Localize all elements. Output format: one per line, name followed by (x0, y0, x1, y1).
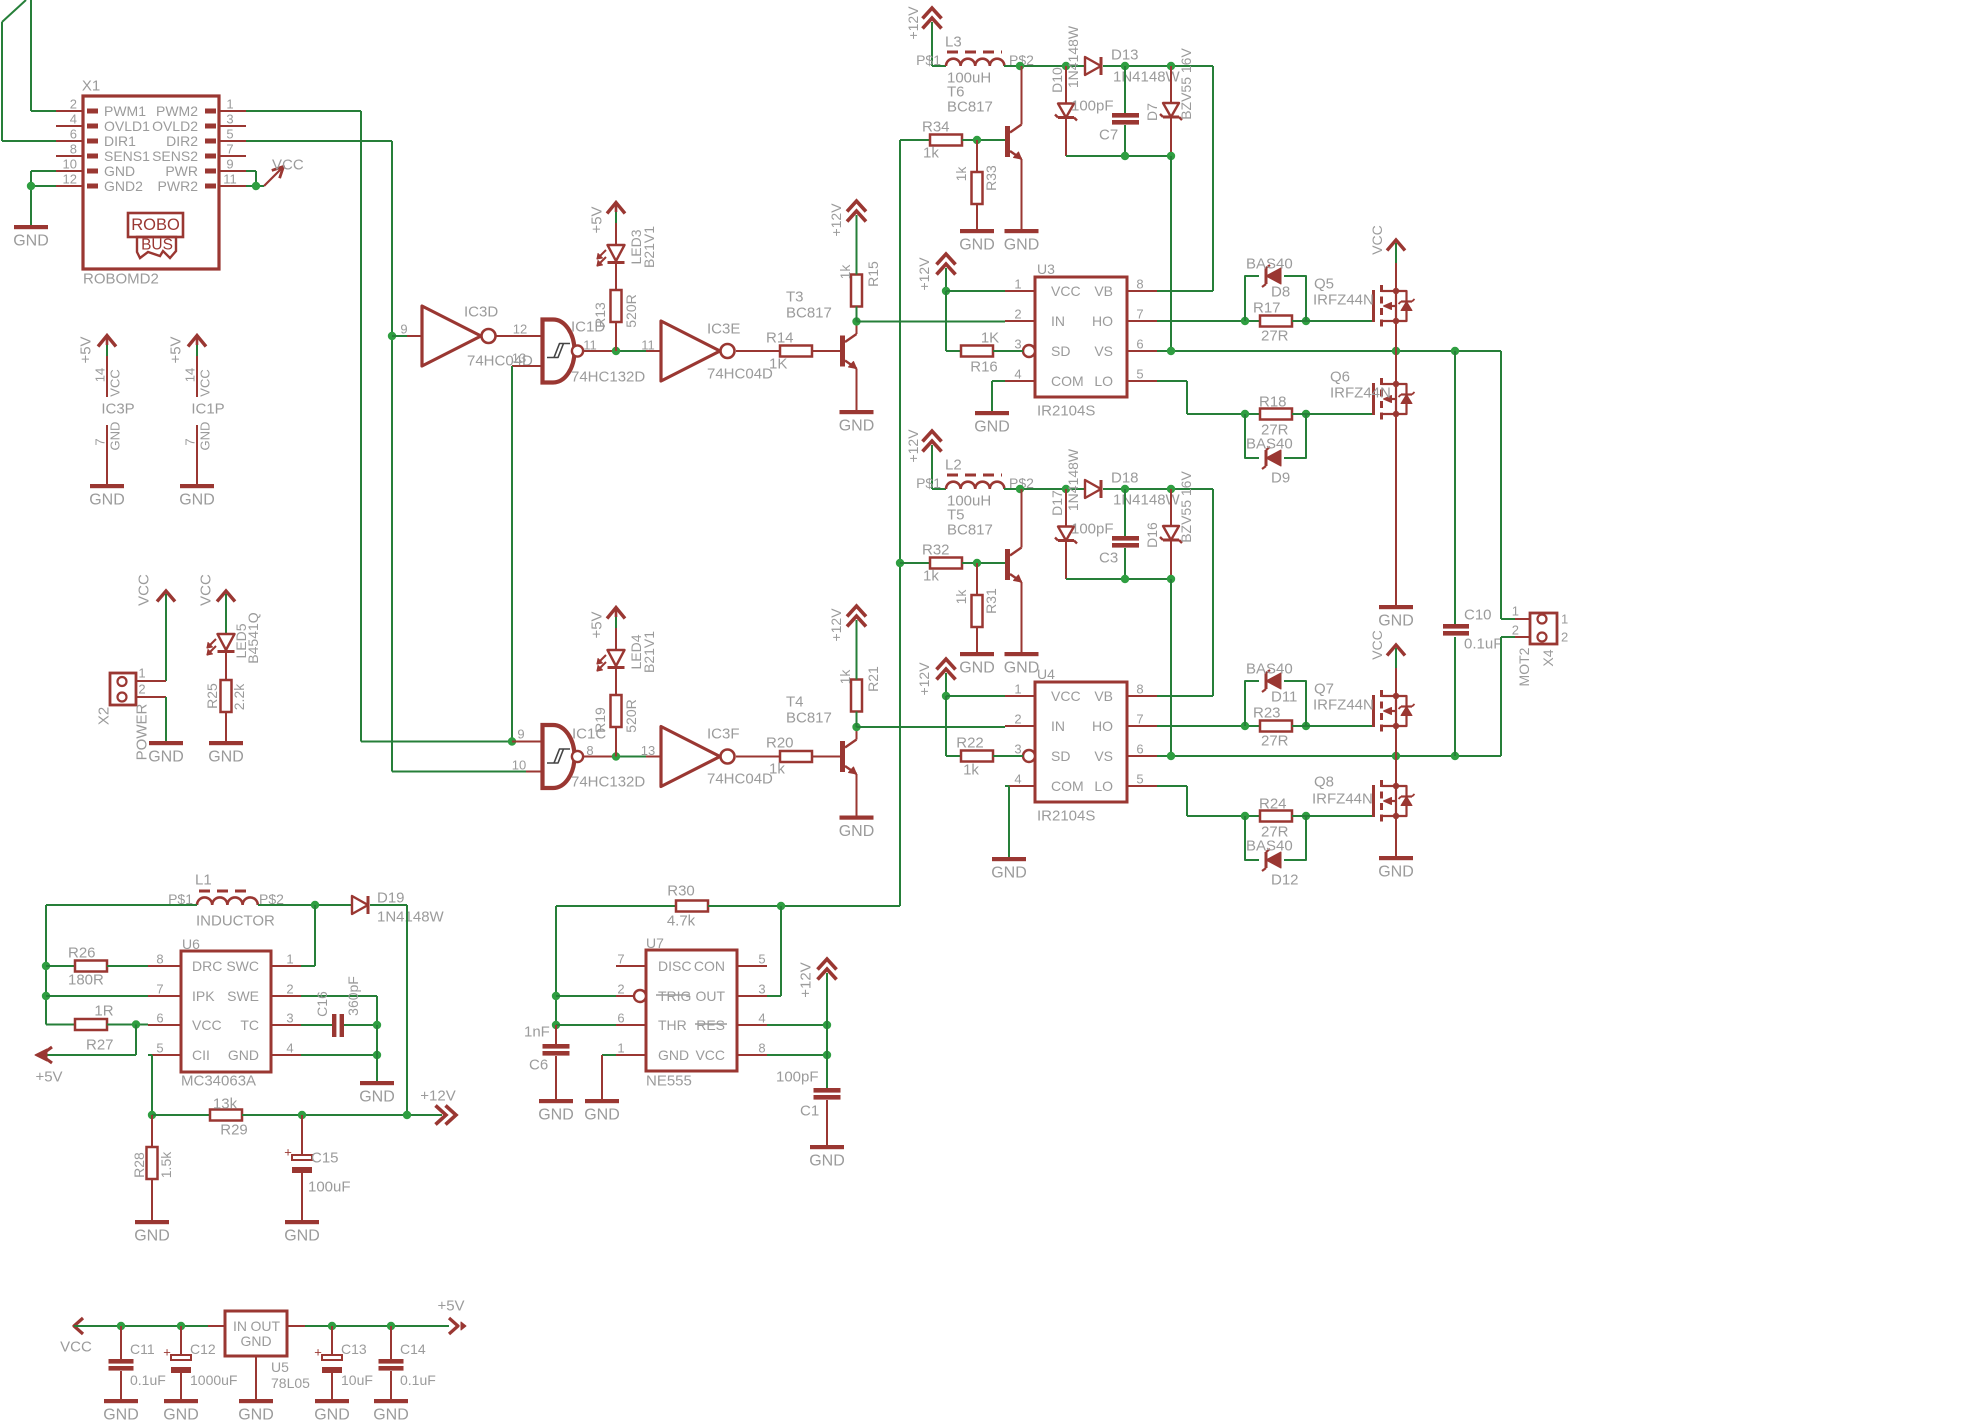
svg-text:GND: GND (104, 163, 135, 179)
svg-text:13: 13 (512, 351, 526, 366)
svg-text:IRFZ44N: IRFZ44N (1330, 385, 1391, 402)
svg-text:2: 2 (1561, 630, 1568, 645)
svg-text:+: + (163, 1345, 171, 1360)
svg-text:27R: 27R (1261, 328, 1289, 345)
svg-text:CON: CON (694, 958, 725, 974)
svg-text:2: 2 (138, 682, 145, 697)
svg-text:IC3F: IC3F (707, 726, 740, 743)
svg-text:1K: 1K (769, 356, 787, 373)
svg-text:R22: R22 (956, 735, 984, 752)
svg-text:5: 5 (156, 1041, 163, 1056)
svg-text:CII: CII (192, 1047, 210, 1063)
svg-text:D19: D19 (377, 890, 405, 907)
svg-text:P$1: P$1 (916, 52, 941, 68)
svg-text:DIR1: DIR1 (104, 133, 136, 149)
svg-text:IC3E: IC3E (707, 321, 740, 338)
svg-text:R29: R29 (220, 1122, 248, 1139)
svg-text:R23: R23 (1253, 705, 1281, 722)
svg-text:R17: R17 (1253, 300, 1281, 317)
svg-text:1k: 1k (923, 568, 939, 585)
svg-text:P$1: P$1 (916, 475, 941, 491)
svg-text:MC34063A: MC34063A (181, 1073, 256, 1090)
svg-text:GND: GND (1378, 613, 1414, 630)
svg-text:SD: SD (1051, 343, 1070, 359)
svg-text:1N4148W: 1N4148W (1065, 25, 1081, 88)
svg-text:0.1uF: 0.1uF (1464, 636, 1502, 653)
svg-text:2: 2 (1014, 307, 1021, 322)
svg-text:C3: C3 (1099, 550, 1118, 567)
svg-text:GND2: GND2 (104, 178, 143, 194)
svg-text:R30: R30 (667, 883, 695, 900)
svg-text:D16: D16 (1144, 522, 1160, 548)
svg-text:VS: VS (1094, 343, 1113, 359)
svg-text:INDUCTOR: INDUCTOR (196, 913, 275, 930)
svg-text:TRIG: TRIG (658, 988, 691, 1004)
svg-text:VCC: VCC (60, 1339, 92, 1356)
svg-text:IRFZ44N: IRFZ44N (1313, 697, 1374, 714)
svg-text:VCC: VCC (1369, 225, 1385, 255)
svg-text:LO: LO (1094, 778, 1113, 794)
svg-text:VCC: VCC (1369, 630, 1385, 660)
svg-text:IC3D: IC3D (464, 304, 498, 321)
svg-text:VCC: VCC (695, 1047, 725, 1063)
svg-text:SENS2: SENS2 (152, 148, 198, 164)
svg-text:SWE: SWE (227, 988, 259, 1004)
svg-text:5: 5 (1136, 367, 1143, 382)
svg-text:Q6: Q6 (1330, 369, 1350, 386)
svg-text:1: 1 (1512, 604, 1519, 619)
svg-text:GND: GND (148, 749, 184, 766)
svg-text:R19: R19 (592, 707, 608, 733)
svg-text:SENS1: SENS1 (104, 148, 150, 164)
svg-text:9: 9 (226, 157, 233, 172)
svg-text:OVLD1: OVLD1 (104, 118, 150, 134)
svg-text:COM: COM (1051, 373, 1084, 389)
svg-text:VB: VB (1094, 688, 1113, 704)
svg-text:IC1P: IC1P (191, 401, 224, 418)
svg-text:R15: R15 (865, 261, 881, 287)
svg-text:C12: C12 (190, 1341, 216, 1357)
svg-text:IPK: IPK (192, 988, 215, 1004)
svg-text:2: 2 (1014, 712, 1021, 727)
svg-text:GND: GND (1378, 864, 1414, 881)
svg-text:Q7: Q7 (1314, 681, 1334, 698)
svg-text:VCC: VCC (272, 157, 304, 174)
svg-text:VCC: VCC (198, 574, 215, 606)
svg-text:520R: 520R (623, 699, 639, 732)
svg-text:GND: GND (208, 749, 244, 766)
svg-text:ROBO: ROBO (131, 216, 180, 234)
svg-text:74HC04D: 74HC04D (707, 366, 773, 383)
svg-text:BUS: BUS (141, 237, 173, 254)
svg-text:78L05: 78L05 (271, 1375, 310, 1391)
svg-text:100pF: 100pF (776, 1069, 819, 1086)
svg-text:2.2k: 2.2k (231, 683, 247, 710)
svg-text:7: 7 (156, 982, 163, 997)
svg-text:B21V1: B21V1 (641, 631, 657, 673)
svg-text:+5V: +5V (589, 206, 606, 233)
svg-text:D12: D12 (1271, 872, 1299, 889)
svg-text:D8: D8 (1271, 284, 1290, 301)
svg-text:1k: 1k (963, 762, 979, 779)
svg-text:C11: C11 (130, 1341, 155, 1357)
svg-text:TC: TC (240, 1017, 259, 1033)
svg-text:GND: GND (1004, 237, 1040, 254)
svg-text:1k: 1k (769, 761, 785, 778)
svg-text:100pF: 100pF (1071, 521, 1114, 538)
svg-text:2: 2 (1512, 623, 1519, 638)
svg-text:X2: X2 (96, 707, 113, 725)
svg-text:IR2104S: IR2104S (1037, 403, 1095, 420)
svg-text:5: 5 (1136, 772, 1143, 787)
svg-text:8: 8 (1136, 682, 1143, 697)
svg-text:L2: L2 (945, 457, 962, 474)
svg-text:GND: GND (228, 1047, 259, 1063)
svg-text:X4: X4 (1540, 649, 1556, 666)
svg-text:R31: R31 (983, 588, 999, 614)
svg-text:GND: GND (974, 419, 1010, 436)
svg-text:1R: 1R (94, 1003, 113, 1020)
svg-text:VCC: VCC (198, 369, 213, 396)
svg-text:PWM1: PWM1 (104, 103, 146, 119)
svg-text:100pF: 100pF (1071, 98, 1114, 115)
svg-text:BAS40: BAS40 (1246, 436, 1293, 453)
svg-text:R32: R32 (922, 542, 950, 559)
svg-text:GND: GND (839, 823, 875, 840)
svg-text:VCC: VCC (1051, 688, 1081, 704)
svg-text:2: 2 (70, 97, 77, 112)
svg-text:1: 1 (1014, 682, 1021, 697)
svg-text:1k: 1k (923, 145, 939, 162)
svg-text:12: 12 (63, 172, 77, 187)
svg-text:PWR: PWR (165, 163, 198, 179)
svg-text:+5V: +5V (168, 336, 185, 363)
svg-text:DRC: DRC (192, 958, 222, 974)
svg-text:GND: GND (13, 233, 49, 250)
svg-text:6: 6 (156, 1011, 163, 1026)
svg-text:8: 8 (758, 1041, 765, 1056)
svg-text:74HC04D: 74HC04D (707, 771, 773, 788)
svg-text:GND: GND (584, 1107, 620, 1124)
svg-text:74HC132D: 74HC132D (571, 774, 645, 791)
svg-text:GND: GND (1004, 660, 1040, 677)
svg-text:6: 6 (1136, 742, 1143, 757)
svg-text:BC817: BC817 (786, 710, 832, 727)
svg-text:U6: U6 (182, 936, 200, 952)
svg-text:R28: R28 (131, 1152, 147, 1178)
svg-text:180R: 180R (68, 972, 104, 989)
svg-text:10uF: 10uF (341, 1372, 373, 1388)
svg-text:R16: R16 (970, 359, 998, 376)
svg-text:3: 3 (758, 982, 765, 997)
svg-text:R21: R21 (865, 666, 881, 692)
svg-text:27R: 27R (1261, 733, 1289, 750)
svg-text:HO: HO (1092, 718, 1113, 734)
svg-text:R27: R27 (86, 1037, 114, 1054)
svg-text:11: 11 (583, 338, 597, 353)
svg-text:GND: GND (103, 1407, 139, 1422)
svg-text:BC817: BC817 (786, 305, 832, 322)
svg-text:1.5k: 1.5k (158, 1151, 174, 1178)
svg-text:COM: COM (1051, 778, 1084, 794)
svg-text:1: 1 (226, 97, 233, 112)
svg-text:4.7k: 4.7k (667, 913, 696, 930)
svg-text:1k: 1k (953, 589, 969, 605)
svg-text:SWC: SWC (226, 958, 259, 974)
svg-text:BAS40: BAS40 (1246, 256, 1293, 273)
svg-text:R26: R26 (68, 945, 96, 962)
svg-text:VCC: VCC (1051, 283, 1081, 299)
svg-text:520R: 520R (623, 294, 639, 327)
svg-text:GND: GND (240, 1333, 271, 1349)
svg-text:GND: GND (959, 237, 995, 254)
svg-text:OVLD2: OVLD2 (152, 118, 198, 134)
svg-text:GND: GND (179, 492, 215, 509)
svg-text:2: 2 (286, 982, 293, 997)
svg-text:T4: T4 (786, 694, 804, 711)
svg-text:1K: 1K (981, 330, 999, 347)
svg-text:+12V: +12V (905, 6, 921, 40)
svg-text:D13: D13 (1111, 47, 1139, 64)
svg-text:+: + (314, 1345, 322, 1360)
svg-text:OUT: OUT (695, 988, 725, 1004)
svg-text:7: 7 (226, 142, 233, 157)
svg-text:6: 6 (1136, 337, 1143, 352)
svg-text:POWER: POWER (134, 704, 151, 761)
svg-text:PWM2: PWM2 (156, 103, 198, 119)
svg-text:IN: IN (1051, 313, 1065, 329)
svg-text:8: 8 (70, 142, 77, 157)
svg-text:HO: HO (1092, 313, 1113, 329)
svg-text:THR: THR (658, 1017, 687, 1033)
svg-text:B21V1: B21V1 (641, 226, 657, 268)
svg-text:D7: D7 (1144, 103, 1160, 121)
svg-text:11: 11 (223, 172, 237, 187)
svg-text:7: 7 (1136, 712, 1143, 727)
svg-text:14: 14 (93, 368, 108, 382)
svg-text:VCC: VCC (108, 369, 123, 396)
svg-text:+5V: +5V (35, 1069, 62, 1086)
svg-text:BAS40: BAS40 (1246, 661, 1293, 678)
svg-text:+12V: +12V (828, 608, 844, 642)
svg-text:1: 1 (138, 666, 145, 681)
svg-text:GND: GND (538, 1107, 574, 1124)
svg-text:DIR2: DIR2 (166, 133, 198, 149)
svg-text:GND: GND (373, 1407, 409, 1422)
svg-text:ROBOMD2: ROBOMD2 (83, 271, 159, 288)
svg-text:R25: R25 (204, 683, 220, 709)
svg-text:GND: GND (284, 1228, 320, 1245)
svg-text:7: 7 (93, 438, 108, 445)
svg-text:8: 8 (156, 952, 163, 967)
svg-text:9: 9 (517, 727, 524, 742)
svg-text:0.1uF: 0.1uF (400, 1372, 436, 1388)
svg-text:7: 7 (183, 438, 198, 445)
svg-text:IN: IN (233, 1318, 247, 1334)
svg-text:14: 14 (183, 368, 198, 382)
svg-text:1: 1 (1014, 277, 1021, 292)
svg-text:5: 5 (226, 127, 233, 142)
svg-text:100uF: 100uF (308, 1179, 351, 1196)
svg-text:D9: D9 (1271, 470, 1290, 487)
svg-text:0.1uF: 0.1uF (130, 1372, 166, 1388)
svg-text:SD: SD (1051, 748, 1070, 764)
svg-text:+12V: +12V (420, 1088, 455, 1105)
svg-text:C16: C16 (314, 991, 330, 1017)
svg-text:+12V: +12V (798, 962, 815, 997)
svg-text:IC3P: IC3P (101, 401, 134, 418)
svg-text:4: 4 (1014, 772, 1021, 787)
svg-text:C14: C14 (400, 1341, 426, 1357)
svg-text:Q5: Q5 (1314, 276, 1334, 293)
svg-text:+5V: +5V (78, 336, 95, 363)
svg-text:10: 10 (63, 157, 77, 172)
svg-text:GND: GND (314, 1407, 350, 1422)
svg-text:OUT: OUT (250, 1318, 280, 1334)
svg-text:Q8: Q8 (1314, 774, 1334, 791)
svg-text:D18: D18 (1111, 470, 1139, 487)
svg-text:1N4148W: 1N4148W (1065, 448, 1081, 511)
svg-text:+5V: +5V (589, 611, 606, 638)
svg-text:BC817: BC817 (947, 522, 993, 539)
svg-text:C10: C10 (1464, 607, 1492, 624)
svg-text:4: 4 (758, 1011, 765, 1026)
svg-text:1: 1 (286, 952, 293, 967)
svg-text:L3: L3 (945, 34, 962, 51)
svg-text:T3: T3 (786, 289, 804, 306)
svg-text:1k: 1k (953, 166, 969, 182)
svg-text:2: 2 (617, 982, 624, 997)
svg-text:PWR2: PWR2 (158, 178, 199, 194)
svg-text:C7: C7 (1099, 127, 1118, 144)
svg-text:8: 8 (1136, 277, 1143, 292)
svg-text:GND: GND (991, 865, 1027, 882)
svg-text:D10: D10 (1049, 67, 1065, 93)
svg-text:X1: X1 (82, 78, 100, 95)
svg-text:7: 7 (617, 952, 624, 967)
svg-text:VB: VB (1094, 283, 1113, 299)
svg-text:R13: R13 (592, 302, 608, 328)
svg-text:+12V: +12V (916, 257, 932, 291)
svg-text:8: 8 (586, 743, 593, 758)
svg-text:VCC: VCC (136, 574, 153, 606)
svg-text:IRFZ44N: IRFZ44N (1312, 791, 1373, 808)
svg-text:C1: C1 (800, 1103, 819, 1120)
svg-text:4: 4 (286, 1041, 293, 1056)
svg-text:+5V: +5V (437, 1298, 464, 1315)
svg-text:7: 7 (1136, 307, 1143, 322)
svg-text:GND: GND (839, 418, 875, 435)
svg-text:DISC: DISC (658, 958, 691, 974)
svg-text:1000uF: 1000uF (190, 1372, 237, 1388)
svg-text:360pF: 360pF (345, 976, 361, 1016)
svg-text:D17: D17 (1049, 490, 1065, 516)
svg-text:6: 6 (70, 127, 77, 142)
svg-text:NE555: NE555 (646, 1073, 692, 1090)
svg-text:GND: GND (959, 660, 995, 677)
svg-text:GND: GND (198, 422, 213, 451)
svg-text:U3: U3 (1037, 261, 1055, 277)
svg-text:1k: 1k (837, 264, 853, 280)
svg-text:LO: LO (1094, 373, 1113, 389)
svg-text:6: 6 (617, 1011, 624, 1026)
svg-text:+: + (284, 1145, 292, 1160)
svg-text:R24: R24 (1259, 796, 1287, 813)
svg-text:1N4148W: 1N4148W (377, 909, 445, 926)
svg-text:MOT2: MOT2 (1516, 647, 1532, 686)
svg-text:GND: GND (238, 1407, 274, 1422)
svg-text:BZV55 16V: BZV55 16V (1178, 48, 1194, 120)
svg-text:GND: GND (809, 1153, 845, 1170)
svg-text:13: 13 (641, 743, 655, 758)
svg-text:IRFZ44N: IRFZ44N (1313, 292, 1374, 309)
svg-text:+12V: +12V (905, 429, 921, 463)
svg-text:GND: GND (89, 492, 125, 509)
svg-text:3: 3 (286, 1011, 293, 1026)
svg-text:L1: L1 (195, 872, 212, 889)
svg-text:12: 12 (513, 322, 527, 337)
svg-text:R18: R18 (1259, 394, 1287, 411)
svg-text:3: 3 (1014, 742, 1021, 757)
svg-text:1nF: 1nF (524, 1024, 550, 1041)
svg-text:GND: GND (163, 1407, 199, 1422)
svg-text:4: 4 (1014, 367, 1021, 382)
svg-text:BZV55 16V: BZV55 16V (1178, 471, 1194, 543)
svg-text:C13: C13 (341, 1341, 367, 1357)
svg-text:RES: RES (696, 1017, 725, 1033)
svg-text:R14: R14 (766, 330, 794, 347)
svg-text:+12V: +12V (916, 662, 932, 696)
svg-text:VS: VS (1094, 748, 1113, 764)
svg-text:+12V: +12V (828, 203, 844, 237)
svg-text:13k: 13k (213, 1096, 238, 1113)
svg-text:3: 3 (226, 112, 233, 127)
svg-text:10: 10 (512, 758, 526, 773)
svg-text:BC817: BC817 (947, 99, 993, 116)
svg-text:4: 4 (70, 112, 77, 127)
svg-text:3: 3 (1014, 337, 1021, 352)
svg-text:C6: C6 (529, 1057, 548, 1074)
svg-text:IR2104S: IR2104S (1037, 808, 1095, 825)
svg-text:R20: R20 (766, 735, 794, 752)
svg-text:U7: U7 (646, 935, 664, 951)
svg-text:1: 1 (617, 1041, 624, 1056)
svg-text:GND: GND (359, 1089, 395, 1106)
svg-text:74HC132D: 74HC132D (571, 369, 645, 386)
svg-text:GND: GND (658, 1047, 689, 1063)
svg-text:GND: GND (134, 1228, 170, 1245)
svg-text:GND: GND (108, 422, 123, 451)
svg-text:D11: D11 (1271, 689, 1297, 706)
svg-text:VCC: VCC (192, 1017, 222, 1033)
svg-text:5: 5 (758, 952, 765, 967)
svg-text:IN: IN (1051, 718, 1065, 734)
svg-text:1k: 1k (837, 669, 853, 685)
svg-text:C15: C15 (311, 1150, 339, 1167)
svg-text:R33: R33 (983, 165, 999, 191)
svg-text:R34: R34 (922, 119, 950, 136)
svg-text:U4: U4 (1037, 666, 1055, 682)
svg-text:1: 1 (1561, 612, 1568, 627)
svg-text:BAS40: BAS40 (1246, 838, 1293, 855)
svg-text:11: 11 (641, 338, 655, 353)
svg-text:U5: U5 (271, 1359, 289, 1375)
svg-text:9: 9 (400, 322, 407, 337)
svg-text:B4541Q: B4541Q (245, 612, 261, 663)
